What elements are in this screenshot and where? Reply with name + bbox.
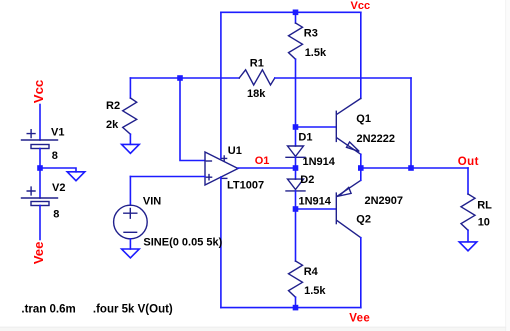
svg-text:2N2222: 2N2222 xyxy=(357,133,396,145)
svg-text:U1: U1 xyxy=(228,145,242,157)
transistor Q1 xyxy=(296,126,336,128)
svg-text:.four 5k V(Out): .four 5k V(Out) xyxy=(93,304,173,316)
svg-text:VIN: VIN xyxy=(143,196,161,208)
node emitters junction xyxy=(358,165,364,171)
svg-text:V1: V1 xyxy=(51,127,64,139)
svg-text:2N2907: 2N2907 xyxy=(365,195,404,207)
wire opamp V+ pin riser xyxy=(220,12,222,158)
svg-text:O1: O1 xyxy=(255,155,270,167)
node R3/D1/Q1 base xyxy=(293,124,299,130)
node D2/R4/Q2 base xyxy=(293,206,299,212)
svg-text:10: 10 xyxy=(478,216,490,228)
svg-text:8: 8 xyxy=(53,209,59,221)
svg-text:1N914: 1N914 xyxy=(303,156,336,168)
resistor RL xyxy=(467,168,469,194)
svg-text:RL: RL xyxy=(477,200,492,212)
svg-text:R4: R4 xyxy=(304,266,319,278)
svg-text:Vcc: Vcc xyxy=(351,0,371,12)
wire inverting input xyxy=(180,78,205,161)
wire Out rail xyxy=(361,167,468,169)
battery V2 xyxy=(39,168,41,198)
node R4 bottom at Vee rail xyxy=(293,305,299,311)
svg-text:Q2: Q2 xyxy=(356,213,371,225)
svg-text:Out: Out xyxy=(458,156,479,168)
ground below VIN xyxy=(129,239,131,249)
ground below R2 xyxy=(122,144,140,153)
svg-text:LT1007: LT1007 xyxy=(227,180,264,192)
svg-text:Vcc: Vcc xyxy=(31,80,46,103)
node feedback junction xyxy=(408,165,414,171)
svg-text:Q1: Q1 xyxy=(356,113,371,125)
wire to mid ground xyxy=(40,168,76,172)
wire feedback drop xyxy=(410,78,412,168)
svg-text:2k: 2k xyxy=(106,119,119,131)
wire Q1 collector riser xyxy=(360,12,362,98)
svg-text:1.5k: 1.5k xyxy=(304,285,326,297)
transistor Q2 xyxy=(296,208,336,210)
svg-text:D2: D2 xyxy=(300,174,314,186)
diode D2 xyxy=(295,168,297,179)
wire bottom Vee rail xyxy=(221,307,361,309)
node battery midpoint xyxy=(37,165,43,171)
wire opamp V- pin drop xyxy=(220,177,222,308)
diode D1 xyxy=(295,127,297,146)
voltage source VIN xyxy=(130,176,205,178)
ground below RL xyxy=(459,242,477,251)
resistor R1 xyxy=(130,77,239,79)
svg-text:8: 8 xyxy=(52,150,58,162)
op-amp U1 xyxy=(205,152,238,185)
ground battery midpoint xyxy=(67,172,85,181)
resistor R4 xyxy=(295,209,297,261)
svg-text:Vee: Vee xyxy=(349,313,370,325)
wire top Vcc rail xyxy=(221,11,361,13)
svg-text:D1: D1 xyxy=(298,131,312,143)
window edge band xyxy=(0,326,510,329)
svg-text:SINE(0 0.05 5k): SINE(0 0.05 5k) xyxy=(143,237,222,249)
svg-text:R3: R3 xyxy=(304,28,318,40)
resistor R3 xyxy=(295,12,297,23)
svg-text:R1: R1 xyxy=(250,57,264,69)
svg-text:.tran 0.6m: .tran 0.6m xyxy=(21,304,75,316)
svg-text:18k: 18k xyxy=(247,88,266,100)
node R3 top at Vcc rail xyxy=(293,10,299,16)
node junction R1/R2/inverting input xyxy=(177,75,183,81)
resistor R2 xyxy=(129,78,131,98)
svg-text:1.5k: 1.5k xyxy=(305,47,327,59)
node O1 junction xyxy=(293,165,299,171)
svg-text:R2: R2 xyxy=(106,100,120,112)
wire opamp output xyxy=(238,167,296,169)
svg-text:V2: V2 xyxy=(52,182,65,194)
svg-text:Vee: Vee xyxy=(31,242,46,265)
svg-text:1N914: 1N914 xyxy=(299,196,332,208)
